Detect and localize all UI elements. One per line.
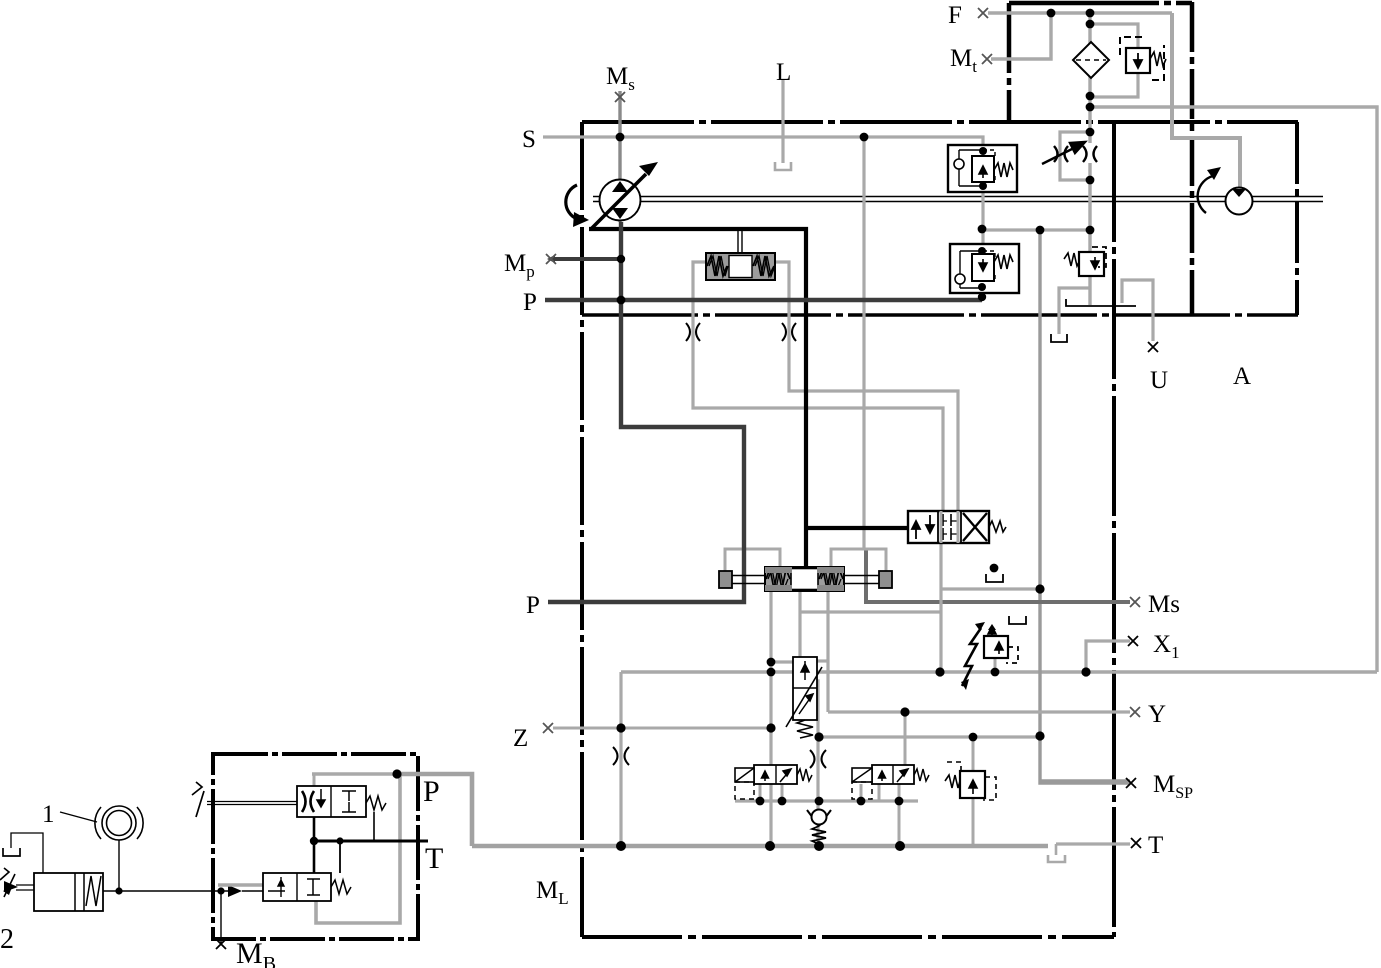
tank rail (thin black) near U — [1066, 299, 1136, 306]
motor M2 (in block A) — [1198, 167, 1253, 215]
wire: x=621 branch with throttle down to bottom rail — [619, 672, 622, 848]
pump P1 (variable displacement) — [566, 162, 658, 229]
wire: V5 bottom side line x=818 — [813, 681, 818, 848]
orifice on main filter line — [1083, 146, 1097, 162]
steering unit box border (dash-dot) — [213, 754, 418, 939]
wire: big loop to right edge (y=107 / x=1377 / y=672) — [1090, 107, 1377, 672]
svg-text:T: T — [1148, 832, 1163, 859]
main hydraulic block border (dash-dot) — [582, 122, 1298, 937]
svg-text:1: 1 — [42, 801, 55, 828]
wire: y=737 pilot link — [818, 735, 1040, 738]
relief valve assembly R2 — [950, 244, 1019, 293]
top-right filter block border — [1009, 2, 1192, 315]
wire: filter branch vertical x=1090 — [1088, 13, 1091, 143]
orifice O3 (x=621 branch) — [613, 747, 629, 765]
motor block A border — [1295, 122, 1299, 315]
wire: F port line — [988, 11, 1172, 14]
variable throttle VT1 (on bypass loop) — [1042, 142, 1085, 164]
pump feed thick black line to spool/prop valve — [589, 229, 806, 567]
wire: P port (upper) dark line to relief stack — [545, 298, 982, 302]
wire: gray stub into V13 — [218, 883, 263, 886]
master cylinder (2) — [0, 833, 103, 911]
arrow: Mp — [547, 255, 555, 263]
wire: black branch to proportional valve V4 — [806, 526, 908, 530]
wire: V12 top port (gray) — [313, 774, 316, 786]
orifice O1 — [686, 323, 700, 341]
wire: V7 bottom stubs — [760, 784, 782, 801]
wire: V13 return loop (gray) — [316, 774, 400, 923]
wire: x=1040 long vertical to MSP — [1040, 230, 1130, 781]
relief valve V10 — [945, 762, 996, 800]
svg-text:Ms: Ms — [1148, 591, 1180, 618]
wire: V5 left port to x=771 — [771, 660, 793, 663]
steering valve V13 — [263, 873, 351, 901]
svg-text:Y: Y — [1148, 701, 1166, 728]
wire: spool port x=828 down to V5 right / Y line — [826, 591, 829, 712]
tank symbol under L — [775, 162, 791, 170]
steering wheel (1) — [60, 806, 143, 840]
svg-text:S: S — [522, 126, 536, 153]
wire: second link to V13 — [339, 841, 341, 873]
wire: y=589 link to x=1040 — [941, 587, 1040, 590]
wire: relief drain to tank (left of V11) — [1059, 288, 1090, 334]
wire: U port line — [1122, 280, 1153, 341]
tank symbol below V11 drain — [1051, 334, 1067, 342]
solenoid valve V8 — [852, 765, 929, 799]
svg-text:P: P — [523, 289, 537, 316]
tank bracket near T port — [1048, 844, 1065, 862]
check valve CV1 (spring loaded) — [807, 810, 831, 845]
svg-text:L: L — [776, 59, 791, 86]
wire: V10 top stub — [972, 737, 975, 771]
wire: V8 bottom stubs — [861, 784, 899, 801]
wire: steering unit external feed — [397, 774, 472, 846]
filter F1 (diamond) — [1073, 42, 1109, 78]
wire: spool pilot loop right — [831, 549, 886, 571]
wire: V12 to V13 black link — [313, 817, 316, 873]
svg-text:Z: Z — [513, 725, 528, 752]
svg-text:A: A — [1233, 363, 1251, 390]
pilot relief valve V6 (proportional) — [961, 616, 1026, 690]
wire: V10 bottom drain — [972, 798, 975, 848]
drive shaft double line — [593, 197, 1323, 202]
svg-text:F: F — [948, 2, 962, 29]
wire: valve V1 side line left (x=693) with orifice — [693, 262, 943, 511]
proportional directional valve V4 — [908, 511, 1006, 543]
wire: Mt port line — [991, 13, 1051, 59]
orifice O4 (x=818) — [810, 750, 826, 768]
wire: T port line — [1056, 842, 1130, 845]
wire: bottom gray rail y=846 — [472, 844, 1048, 849]
svg-text:T: T — [425, 842, 443, 875]
wire: cylinder to steering valve — [103, 890, 228, 892]
wire: V8 drain to bottom rail — [898, 801, 901, 848]
pressure reducing valve V11 — [1064, 247, 1106, 276]
wire: y=801 link under solenoid valves — [735, 799, 918, 802]
wire: y=230 cross line — [982, 228, 1090, 231]
wire: long pilot rail y=672 — [621, 670, 1377, 673]
wire: Mp port line — [553, 257, 621, 261]
wire: P port (lower) dark line to pump control — [548, 222, 744, 602]
wire: Y port line — [828, 710, 1130, 713]
svg-text:2: 2 — [0, 924, 14, 955]
wire: V12 spring anchor — [373, 812, 375, 841]
wire: V6 bottom stub — [994, 658, 997, 672]
wire: wheel to control line — [118, 840, 120, 891]
drain dot+tank under V4 — [990, 564, 999, 573]
relief valve assembly R1 — [948, 145, 1017, 192]
wire: y=612 link to x=941 — [800, 610, 941, 613]
port markers (x) — [216, 8, 1158, 949]
wire: spool drain x=771 down — [769, 591, 772, 848]
wire: L drain line — [781, 80, 784, 163]
wire: X1 port line — [1086, 641, 1130, 672]
wire: pilot lines through V4 — [941, 511, 958, 543]
wire: Ms line (medium gray) — [866, 549, 1130, 602]
relief valve R3 (filter bypass) — [1120, 37, 1166, 80]
wire: Z port line — [553, 727, 771, 730]
control valve V1 (two-spring, above pump line) — [706, 230, 775, 280]
wire: spool port x=800 down to compensator V5 — [798, 591, 801, 657]
wire: P gallery inside steering box — [312, 772, 397, 776]
solenoid valve V7 — [735, 765, 812, 799]
wire: T line out of steering box — [314, 840, 428, 843]
wire: variable throttle bypass loop — [1060, 132, 1090, 180]
svg-text:U: U — [1150, 367, 1168, 394]
wire: spool pilot loop left — [725, 549, 780, 571]
wire: filter bypass loop with relief R3 — [1090, 24, 1138, 97]
compensator valve V5 — [786, 657, 822, 738]
wire: motor feed from filter block — [1172, 13, 1240, 188]
inner block boundary line y=315 (dash-dot) — [582, 313, 1298, 317]
wire: S pilot line — [543, 137, 983, 145]
svg-text:P: P — [526, 592, 540, 619]
svg-text:P: P — [423, 775, 440, 808]
wire: x=941 vertical (V4 bottom to rail) — [939, 543, 942, 672]
steering valve V12 (orifice/2-way) — [192, 782, 386, 817]
wire: V8 top feed from Y line — [904, 712, 907, 765]
orifice O2 — [782, 323, 796, 341]
main spool valve V3 — [719, 567, 892, 591]
wire: S branch down x=864 to Ms port — [862, 137, 865, 549]
wire: Ms top port stub — [618, 91, 621, 222]
wire: relief stack feed x=983 — [981, 192, 984, 244]
wire: MB port stub — [220, 891, 222, 944]
arrow into steering valve — [228, 885, 242, 897]
wire: valve V1 side line right (x=789) with orifice — [775, 262, 958, 511]
